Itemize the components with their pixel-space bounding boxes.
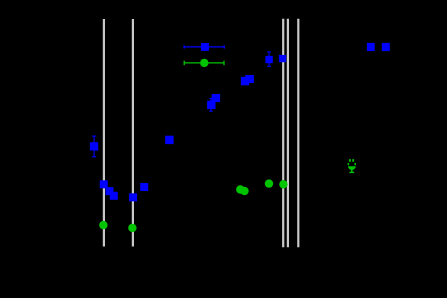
blue point 12 square (265, 56, 272, 63)
blue point 5 square (129, 193, 137, 201)
blue point 3 square (106, 187, 114, 195)
green point 6 circle (279, 180, 287, 188)
blue point 15 square (382, 43, 390, 51)
gray vertical line 4 (287, 19, 289, 248)
green half-filled lower disc (348, 166, 356, 170)
legend blue square marker (201, 43, 209, 51)
green point 4 circle (240, 187, 248, 195)
blue point 9 square (212, 94, 220, 102)
blue point 1 square (90, 142, 98, 150)
legend blue errorbar line (184, 45, 225, 48)
blue point 10 square (241, 77, 249, 86)
gray vertical line 2 (132, 19, 134, 247)
green point 3 circle (236, 185, 244, 193)
blue point 14 square (367, 43, 375, 51)
blue point 11 square (245, 75, 254, 83)
blue point 7 square (165, 136, 173, 144)
legend green errorbar line (184, 61, 224, 65)
legend green circle marker (200, 59, 208, 67)
blue point 4 square (110, 192, 118, 200)
blue point 1 error bar (92, 136, 96, 157)
gray vertical line 3 (282, 19, 284, 248)
green point 2 circle (128, 224, 136, 232)
blue point 6 square (140, 183, 148, 191)
blue point 8 square (207, 101, 215, 109)
gray vertical line 1 (103, 19, 105, 247)
green point 5 circle (265, 179, 273, 187)
blue point 13 square (279, 55, 286, 62)
blue point 8 error bar (209, 98, 213, 111)
green marker tail error bar (349, 170, 354, 173)
blue point 12 error bar (267, 52, 271, 67)
green dashed open circle marker (348, 159, 356, 165)
gray vertical line 5 (297, 19, 299, 248)
blue point 2 square (100, 180, 108, 188)
green point 1 circle (99, 221, 107, 229)
